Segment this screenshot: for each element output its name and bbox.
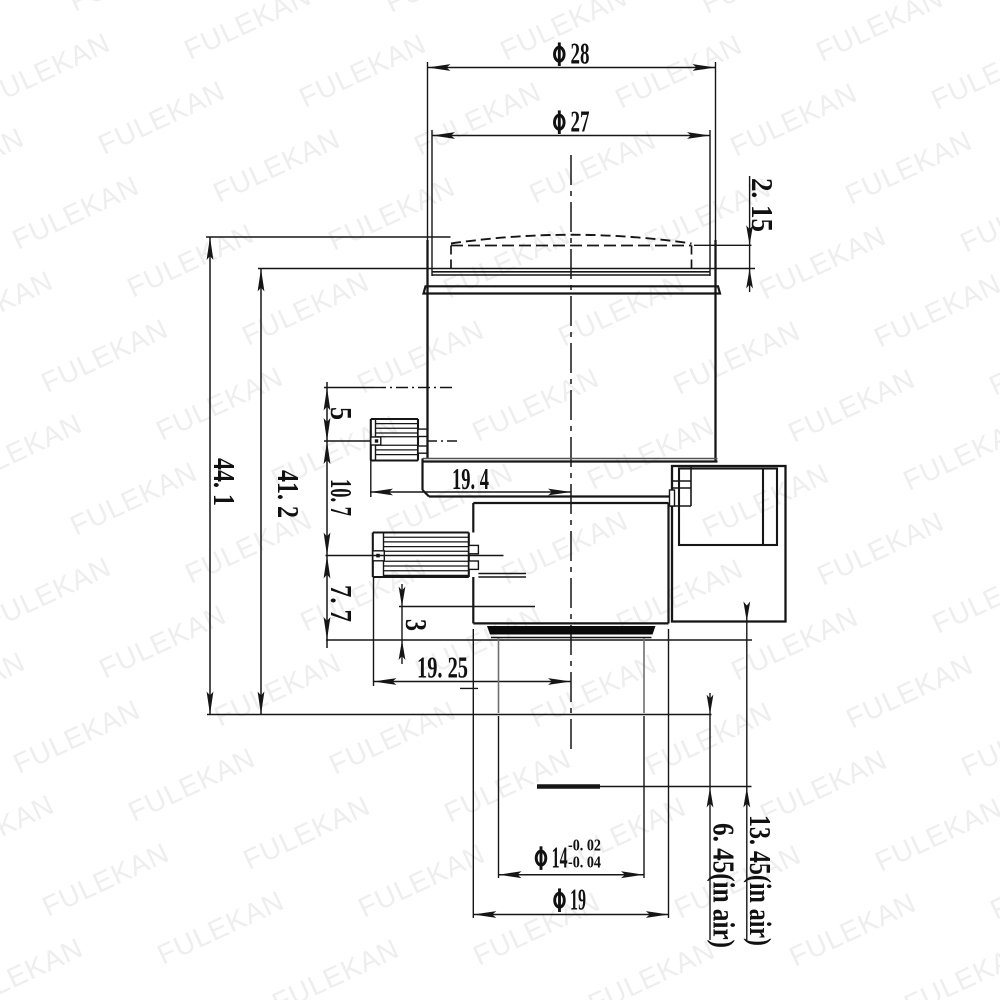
dim chain line	[326, 382, 328, 648]
dim phi27	[432, 104, 710, 139]
svg-text:FULEKAN: FULEKAN	[438, 219, 575, 305]
svg-text:28: 28	[571, 36, 590, 71]
dim 2.15	[745, 176, 780, 292]
svg-text:FULEKAN: FULEKAN	[238, 790, 375, 876]
svg-text:FULEKAN: FULEKAN	[0, 27, 115, 113]
lens element hidden rect top	[451, 245, 692, 247]
svg-text:FULEKAN: FULEKAN	[553, 267, 690, 353]
svg-text:7. 7: 7. 7	[324, 585, 359, 622]
screw S1 axis	[324, 440, 457, 442]
svg-text:13. 45(in air): 13. 45(in air)	[743, 815, 778, 946]
svg-text:10. 7: 10. 7	[324, 479, 359, 516]
svg-text:FULEKAN: FULEKAN	[697, 458, 834, 544]
svg-text:5: 5	[324, 407, 359, 420]
svg-text:FULEKAN: FULEKAN	[324, 695, 461, 781]
bottom line y714.5	[207, 714, 712, 716]
svg-text:FULEKAN: FULEKAN	[956, 697, 1000, 783]
svg-text:FULEKAN: FULEKAN	[870, 792, 1000, 878]
cap rim line 1	[432, 271, 710, 273]
dim 5	[324, 388, 359, 442]
svg-text:FULEKAN: FULEKAN	[668, 315, 805, 401]
svg-text:FULEKAN: FULEKAN	[123, 742, 260, 828]
barrel left edge	[498, 638, 500, 878]
dim 19.25	[374, 650, 572, 685]
svg-text:FULEKAN: FULEKAN	[524, 124, 661, 210]
centerline	[570, 155, 572, 750]
connector inner block	[679, 469, 777, 546]
focus plate left edge	[423, 459, 430, 497]
svg-text:FULEKAN: FULEKAN	[840, 125, 977, 211]
svg-text:FULEKAN: FULEKAN	[0, 551, 116, 637]
knurled screw S1	[371, 419, 427, 461]
connector pins	[670, 466, 692, 506]
svg-text:FULEKAN: FULEKAN	[0, 408, 87, 494]
svg-text:FULEKAN: FULEKAN	[0, 789, 59, 875]
svg-text:FULEKAN: FULEKAN	[353, 838, 490, 924]
svg-text:FULEKAN: FULEKAN	[784, 887, 921, 973]
svg-text:FULEKAN: FULEKAN	[151, 361, 288, 447]
extension line y640	[326, 639, 752, 641]
base block left edge	[472, 503, 474, 623]
cap rim line 2	[432, 274, 710, 276]
dim 3 extension at 606.5	[399, 606, 535, 608]
dim 19.4	[370, 461, 571, 496]
gasket band	[487, 626, 656, 638]
svg-text:FULEKAN: FULEKAN	[841, 649, 978, 735]
svg-text:FULEKAN: FULEKAN	[7, 170, 144, 256]
svg-text:FULEKAN: FULEKAN	[0, 932, 88, 1000]
svg-text:FULEKAN: FULEKAN	[985, 840, 1000, 926]
svg-text:FULEKAN: FULEKAN	[237, 266, 374, 352]
svg-text:FULEKAN: FULEKAN	[811, 0, 948, 67]
svg-text:FULEKAN: FULEKAN	[65, 456, 202, 542]
dim 10.7	[324, 441, 359, 556]
lens element hidden left edge	[450, 246, 452, 269]
connector outer	[672, 466, 786, 622]
upper hole axis	[324, 387, 455, 389]
svg-text:FULEKAN: FULEKAN	[122, 218, 259, 304]
svg-text:FULEKAN: FULEKAN	[37, 837, 174, 923]
lens dome arc (hidden)	[451, 235, 692, 244]
screw S2 boss lines	[478, 574, 526, 578]
svg-text:FULEKAN: FULEKAN	[0, 122, 29, 208]
svg-text:2. 15: 2. 15	[745, 178, 780, 232]
dim 44.1	[207, 237, 242, 715]
short line y688	[460, 687, 478, 689]
svg-text:FULEKAN: FULEKAN	[381, 457, 518, 543]
svg-text:FULEKAN: FULEKAN	[93, 75, 230, 161]
svg-text:FULEKAN: FULEKAN	[179, 0, 316, 65]
dim 2.15 upper extension	[694, 244, 752, 246]
dim phi28	[428, 36, 716, 71]
svg-text:FULEKAN: FULEKAN	[582, 410, 719, 496]
svg-text:FULEKAN: FULEKAN	[0, 646, 30, 732]
base block bottom	[473, 622, 668, 624]
base block top	[473, 502, 668, 504]
svg-text:FULEKAN: FULEKAN	[984, 316, 1000, 402]
svg-text:FULEKAN: FULEKAN	[869, 268, 1000, 354]
svg-text:FULEKAN: FULEKAN	[899, 935, 1000, 1000]
dim 13.45	[743, 602, 778, 947]
svg-text:FULEKAN: FULEKAN	[927, 554, 1000, 640]
dim 6.45	[707, 693, 742, 948]
svg-text:3: 3	[399, 619, 434, 631]
svg-text:41. 2: 41. 2	[271, 470, 306, 518]
lens cap outer right edge + ext	[715, 62, 717, 461]
svg-text:FULEKAN: FULEKAN	[352, 314, 489, 400]
svg-text:FULEKAN: FULEKAN	[208, 123, 345, 209]
svg-text:FULEKAN: FULEKAN	[611, 553, 748, 639]
svg-text:FULEKAN: FULEKAN	[640, 696, 777, 782]
knurled screw S2	[373, 533, 479, 578]
svg-text:FULEKAN: FULEKAN	[0, 265, 58, 351]
svg-text:27: 27	[571, 104, 590, 139]
svg-text:FULEKAN: FULEKAN	[696, 0, 833, 19]
svg-text:-0. 04: -0. 04	[568, 852, 601, 871]
svg-text:14: 14	[552, 839, 568, 874]
svg-text:FULEKAN: FULEKAN	[152, 885, 289, 971]
screw S2 axis line	[326, 555, 504, 557]
svg-text:19. 25: 19. 25	[417, 650, 468, 685]
dim 3	[399, 584, 434, 664]
base block right edge	[667, 503, 669, 623]
screw1 face extension	[370, 461, 372, 498]
svg-text:FULEKAN: FULEKAN	[36, 313, 173, 399]
svg-text:44. 1: 44. 1	[207, 458, 242, 506]
phi19 right extension	[668, 629, 670, 918]
svg-text:FULEKAN: FULEKAN	[725, 77, 862, 163]
svg-text:19. 4: 19. 4	[452, 461, 489, 496]
svg-text:6. 45(in air): 6. 45(in air)	[707, 823, 742, 948]
svg-text:FULEKAN: FULEKAN	[8, 694, 145, 780]
lens cap inner left edge + ext	[431, 130, 433, 276]
svg-text:FULEKAN: FULEKAN	[812, 506, 949, 592]
dim phi19	[473, 882, 669, 918]
svg-text:FULEKAN: FULEKAN	[898, 411, 1000, 497]
lens element hidden right edge	[691, 246, 693, 269]
svg-text:FULEKAN: FULEKAN	[610, 29, 747, 115]
focus plate bottom	[429, 495, 672, 497]
svg-text:FULEKAN: FULEKAN	[583, 934, 720, 1000]
svg-text:FULEKAN: FULEKAN	[783, 363, 920, 449]
41.2 extension line	[258, 268, 755, 270]
svg-text:FULEKAN: FULEKAN	[409, 76, 546, 162]
screw2 face extension	[373, 577, 375, 686]
svg-text:FULEKAN: FULEKAN	[754, 220, 891, 306]
svg-text:FULEKAN: FULEKAN	[209, 647, 346, 733]
svg-text:FULEKAN: FULEKAN	[294, 28, 431, 114]
svg-text:FULEKAN: FULEKAN	[926, 30, 1000, 116]
svg-text:FULEKAN: FULEKAN	[467, 362, 604, 448]
flange	[424, 286, 721, 293]
svg-text:FULEKAN: FULEKAN	[323, 171, 460, 257]
lens cap outer left edge + ext	[427, 62, 429, 459]
svg-text:FULEKAN: FULEKAN	[380, 0, 517, 18]
image plane mark	[537, 784, 752, 789]
svg-text:FULEKAN: FULEKAN	[955, 173, 1000, 259]
lens cap inner right edge + ext	[709, 130, 711, 276]
dim phi14 with tolerance	[499, 835, 645, 878]
44.1 top extension line	[206, 236, 451, 238]
phi19 left extension	[472, 629, 474, 918]
svg-text:19: 19	[570, 882, 586, 917]
body bottom line	[423, 459, 718, 462]
svg-text:FULEKAN: FULEKAN	[64, 0, 201, 17]
svg-text:FULEKAN: FULEKAN	[525, 648, 662, 734]
dim 7.7	[324, 556, 359, 641]
barrel right edge	[643, 638, 645, 878]
dim 41.2	[258, 269, 306, 715]
svg-text:FULEKAN: FULEKAN	[267, 933, 404, 1000]
